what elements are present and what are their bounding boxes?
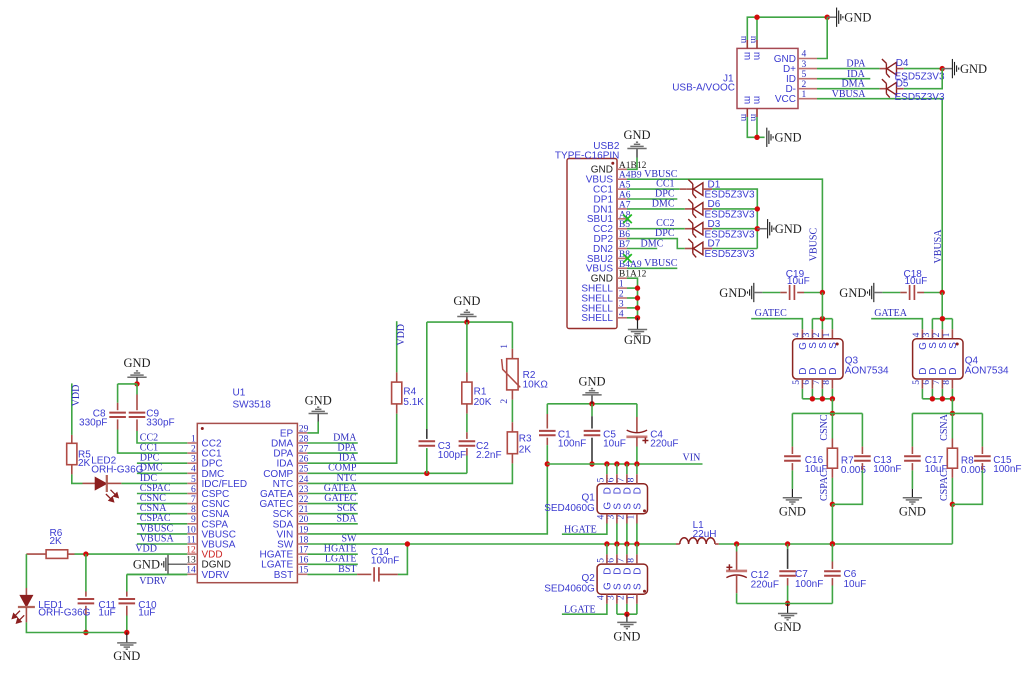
resistor R6 2K (46, 550, 68, 559)
svg-text:8: 8 (626, 477, 636, 482)
junction (424, 471, 429, 476)
wire (636, 404, 638, 417)
svg-text:100nF: 100nF (558, 439, 586, 450)
U1 pin 8 CSNA (187, 513, 197, 515)
junction (830, 396, 835, 401)
svg-text:m: m (741, 96, 752, 104)
svg-text:GND: GND (133, 558, 160, 572)
capacitor C19 plates (789, 285, 791, 300)
svg-text:3: 3 (802, 332, 812, 337)
junction (604, 541, 609, 546)
J1 pin 1 VCC (798, 98, 817, 100)
svg-text:220uF: 220uF (751, 580, 779, 591)
wire C13 to CSPAC node (832, 470, 862, 504)
resistor R3 2K (507, 432, 517, 454)
ground bars (768, 219, 774, 238)
ground GND above USB2 (636, 149, 638, 158)
wire net SW rail (307, 543, 676, 545)
J1 mechanical pin m bottom-left (746, 109, 748, 118)
capacitor C1 100nF (539, 430, 556, 432)
svg-text:5: 5 (802, 70, 807, 80)
junction (785, 601, 790, 606)
ground GND below USB2 (637, 318, 639, 330)
junction (635, 285, 640, 290)
wire C14 to SW (398, 544, 408, 574)
svg-text:16: 16 (299, 556, 309, 566)
svg-text:GND: GND (779, 505, 806, 519)
wire net DMC (137, 472, 187, 474)
capacitor C17 10uF (904, 455, 921, 457)
svg-text:D5: D5 (896, 78, 909, 89)
node CSNC rail (792, 412, 862, 414)
USB2 pin 3 SHELL (617, 307, 627, 309)
wire (736, 544, 738, 552)
diode D6 ESD5Z3V3 (688, 199, 703, 218)
diode D7 ESD5Z3V3 (688, 239, 703, 258)
svg-text:VIN: VIN (683, 453, 701, 464)
svg-text:D: D (948, 368, 959, 375)
svg-text:3: 3 (606, 515, 616, 520)
wire (511, 322, 513, 349)
svg-text:GND: GND (113, 649, 140, 663)
resistor R2 10K NTC (507, 359, 518, 390)
svg-text:100nF: 100nF (795, 579, 823, 590)
svg-text:GND: GND (839, 286, 866, 300)
svg-text:10uF: 10uF (905, 276, 928, 287)
ground GND at U1 DGND pin 13 (168, 563, 187, 565)
wire J1 GND pin to top rail (817, 17, 827, 58)
junction (754, 15, 759, 20)
svg-text:GND: GND (123, 356, 150, 370)
junction (755, 206, 760, 211)
svg-text:AON7534: AON7534 (965, 366, 1009, 377)
diode D3 ESD5Z3V3 (688, 219, 703, 238)
svg-text:1uF: 1uF (138, 608, 155, 619)
svg-text:m: m (751, 96, 762, 104)
svg-text:VCC: VCC (775, 94, 796, 105)
junction (940, 396, 945, 401)
junction (830, 541, 835, 546)
no-connect X on pin A8 (623, 215, 632, 224)
wire net CSPAC down (831, 504, 833, 544)
wire Q4 source tie (932, 318, 952, 320)
wire net VDRV (127, 573, 188, 575)
wire shell pin (627, 307, 638, 309)
svg-text:1: 1 (626, 515, 636, 520)
wire net CSNC (137, 503, 187, 505)
wire VBUSA to Q4 (941, 293, 943, 319)
svg-text:28: 28 (299, 434, 309, 444)
J1 mechanical pin m bottom-right (756, 109, 758, 118)
junction (635, 295, 640, 300)
wire Q3 source tie (812, 318, 832, 320)
svg-text:GND: GND (960, 62, 987, 76)
power flag VDD at R4 (396, 321, 398, 372)
svg-text:VDRV: VDRV (202, 570, 230, 581)
svg-text:CSNC: CSNC (819, 414, 830, 440)
svg-text:SED4060G: SED4060G (544, 503, 595, 514)
svg-text:DMC: DMC (641, 238, 664, 249)
wire net VBUSC from USB2 to Q3 (627, 179, 822, 292)
svg-text:2: 2 (932, 332, 942, 337)
junction (810, 396, 815, 401)
ground bars (117, 643, 136, 649)
junction (624, 461, 629, 466)
svg-text:m: m (741, 52, 752, 60)
wire net LGATE at Q2 (562, 604, 607, 614)
svg-text:ESD5Z3V3: ESD5Z3V3 (895, 92, 945, 103)
ground GND below Q2 (626, 614, 628, 622)
svg-text:20: 20 (299, 515, 309, 525)
svg-text:D: D (632, 487, 643, 494)
wire net DMA (817, 88, 880, 90)
wire (951, 478, 953, 504)
svg-text:14: 14 (186, 566, 196, 576)
wire net DMC (A7) (627, 208, 685, 210)
USB2 pin B8 SBU2 (617, 257, 627, 259)
svg-text:18: 18 (299, 535, 309, 545)
wire net CSPAC (137, 493, 187, 495)
svg-text:GND: GND (774, 620, 801, 634)
wire net HGATE at U1 (307, 553, 357, 555)
wire (787, 586, 789, 604)
svg-text:VDD: VDD (71, 385, 82, 407)
svg-text:15: 15 (299, 566, 309, 576)
wire (791, 413, 793, 446)
svg-text:GND: GND (775, 131, 802, 145)
U1 pin 15 BST (297, 573, 307, 575)
svg-text:SHELL: SHELL (581, 313, 613, 324)
svg-text:5: 5 (596, 477, 606, 482)
svg-text:BST: BST (274, 570, 293, 581)
svg-text:1: 1 (626, 595, 636, 600)
wire (546, 445, 548, 464)
junction (604, 461, 609, 466)
J1 pin 5 ID (798, 78, 817, 80)
svg-text:SW3518: SW3518 (233, 400, 272, 411)
wire net DPC (137, 462, 187, 464)
svg-text:GND: GND (719, 286, 746, 300)
wire (831, 544, 833, 562)
junction (830, 541, 835, 546)
wire net LGATE at U1 (307, 563, 357, 565)
junction (624, 541, 629, 546)
U1 pin 12 VDD (187, 553, 197, 555)
wire net VBUSC (137, 533, 187, 535)
wire net CC1 (627, 188, 680, 190)
junction (635, 315, 640, 320)
junction (830, 502, 835, 507)
svg-text:1: 1 (942, 332, 952, 337)
wire net VIN rail (547, 463, 702, 465)
op-amp U1 SW3518 (197, 423, 297, 582)
svg-text:m: m (751, 52, 762, 60)
wire net HGATE at Q1 (562, 524, 607, 535)
power flag VDD at R5 (71, 383, 73, 435)
wire (831, 413, 833, 438)
ground GND at D4 (942, 68, 952, 70)
U1 pin 29 EP (297, 432, 307, 434)
wire net CSNA (137, 513, 187, 515)
capacitor C6 10uF (824, 570, 841, 572)
wire net DMC (B7) (627, 248, 657, 250)
svg-text:6: 6 (191, 485, 196, 495)
svg-text:13: 13 (186, 556, 196, 566)
wire (511, 400, 513, 423)
svg-text:GATEA: GATEA (874, 308, 908, 319)
ground GND below C17 (911, 489, 913, 498)
svg-text:VBUSC: VBUSC (809, 228, 820, 262)
transistor Q3 AON7534 (793, 339, 843, 379)
junction (785, 541, 790, 546)
ground GND below C16 (791, 489, 793, 498)
svg-text:VDD: VDD (396, 324, 407, 346)
junction (734, 541, 739, 546)
ground bars (457, 310, 476, 316)
svg-text:4: 4 (596, 595, 606, 600)
svg-text:6: 6 (606, 558, 616, 563)
USB2 pin A5 CC1 (617, 188, 627, 190)
ground bars (778, 614, 797, 620)
svg-text:2: 2 (500, 399, 510, 404)
svg-text:23: 23 (299, 485, 309, 495)
svg-text:GND: GND (578, 375, 605, 389)
wire (85, 554, 87, 591)
resistor R7 0.005 (827, 448, 837, 468)
U1 pin 20 SDA (297, 523, 307, 525)
svg-text:5: 5 (191, 475, 196, 485)
svg-text:2: 2 (812, 332, 822, 337)
U1 pin 6 CSPC (187, 493, 197, 495)
inductor L1 22uH (676, 543, 680, 545)
svg-text:1: 1 (191, 434, 196, 444)
capacitor C11 1uF (78, 598, 95, 600)
U1 pin 28 DMA (297, 442, 307, 444)
svg-text:7: 7 (616, 558, 626, 563)
wire SW rail right of L1 (719, 543, 953, 545)
svg-text:2K: 2K (78, 458, 91, 469)
wire (466, 322, 468, 372)
diode D5 ESD5Z3V3 (882, 79, 897, 98)
capacitor C10 1uF (119, 598, 136, 600)
svg-text:10KΩ: 10KΩ (523, 380, 549, 391)
svg-text:6: 6 (922, 380, 932, 385)
wire net COMP (307, 472, 467, 474)
wire BST (307, 573, 357, 575)
transistor Q1 SED4060G (597, 484, 647, 514)
USB2 pin A8 SBU1 (617, 218, 627, 220)
svg-text:5: 5 (912, 380, 922, 385)
capacitor C5 10uF (584, 430, 601, 432)
junction (950, 502, 955, 507)
junction (820, 316, 825, 321)
svg-text:Q1: Q1 (581, 492, 595, 503)
capacitor C13 100nF (854, 455, 871, 457)
U1 pin 25 COMP (297, 472, 307, 474)
transistor Q4 AON7534 (913, 339, 963, 379)
junction (634, 461, 639, 466)
svg-text:7: 7 (616, 477, 626, 482)
USB2 pin A1B12 GND (617, 168, 627, 170)
diode D4 ESD5Z3V3 (882, 59, 897, 78)
U1 pin 13 DGND (187, 563, 197, 565)
U1 pin 16 LGATE (297, 563, 307, 565)
svg-text:7: 7 (932, 380, 942, 385)
U1 pin 10 VBUSC (187, 533, 197, 535)
svg-text:VBUSC: VBUSC (644, 258, 678, 269)
svg-text:3: 3 (922, 332, 932, 337)
svg-text:3: 3 (802, 60, 807, 70)
ground GND top of J1 (827, 16, 836, 18)
svg-text:6: 6 (802, 380, 812, 385)
wire bottom rail to GND (26, 622, 126, 632)
svg-text:2: 2 (191, 445, 196, 455)
svg-text:22: 22 (299, 495, 309, 505)
svg-text:4: 4 (912, 332, 922, 337)
svg-text:8: 8 (191, 505, 196, 515)
transistor Q2 SED4060G (597, 564, 647, 594)
J1 pin 4 GND (798, 58, 817, 60)
junction (825, 15, 830, 20)
ground GND at diode bus (757, 228, 767, 230)
J1 mechanical pin m top-left (746, 40, 748, 48)
capacitor C2 2.2nF (459, 440, 476, 442)
wire (546, 404, 548, 414)
wire J1 shell top-right stub riser (756, 17, 758, 40)
svg-text:CSPAC: CSPAC (939, 470, 950, 501)
U1 pin 14 VDRV (187, 573, 197, 575)
junction (820, 396, 825, 401)
LED LED2 ORH-G36G (95, 477, 106, 489)
svg-text:ORH-G36G: ORH-G36G (91, 465, 143, 476)
U1 pin 18 SW (297, 543, 307, 545)
svg-text:VDD: VDD (135, 544, 157, 555)
wire (307, 513, 357, 515)
svg-text:HGATE: HGATE (564, 524, 597, 535)
svg-text:2.2nF: 2.2nF (476, 450, 502, 461)
svg-text:4: 4 (619, 309, 624, 319)
junction (940, 66, 945, 71)
wire net CC2 (627, 228, 685, 230)
capacitor C7 100nF (779, 570, 796, 572)
wire (951, 413, 953, 438)
junction (940, 316, 945, 321)
ground GND bottom left (126, 633, 128, 643)
wire net DPC (A6) (627, 198, 677, 200)
wire shell pin (627, 317, 638, 319)
node CSNA rail (912, 412, 982, 414)
svg-text:100nF: 100nF (873, 464, 901, 475)
capacitor C16 10uF (784, 455, 801, 457)
net GATEA (871, 319, 922, 330)
svg-text:100nF: 100nF (993, 464, 1021, 475)
svg-text:LGATE: LGATE (564, 604, 596, 615)
wire (882, 292, 900, 294)
ground bars (952, 59, 958, 78)
svg-text:22uH: 22uH (693, 529, 717, 540)
USB2 pin 4 SHELL (617, 317, 627, 319)
svg-text:VBUSA: VBUSA (832, 89, 867, 100)
junction (464, 319, 469, 324)
resistor R8 0.005 (947, 448, 957, 468)
capacitor C12 220uF (726, 570, 747, 573)
svg-text:1: 1 (500, 344, 510, 349)
ground GND at C18 (868, 283, 874, 302)
U1 pin 27 DPA (297, 452, 307, 454)
wire net IDA to R4 (307, 414, 396, 464)
svg-text:5.1K: 5.1K (403, 397, 424, 408)
svg-text:10uF: 10uF (844, 579, 867, 590)
node GND rail above R1 (427, 321, 513, 323)
svg-text:Q2: Q2 (581, 573, 595, 584)
wire (636, 447, 638, 465)
ground GND at U1 EP (317, 414, 319, 422)
svg-text:12: 12 (186, 546, 196, 556)
wire (762, 292, 780, 294)
wire (791, 470, 793, 489)
svg-text:GND: GND (844, 11, 871, 25)
svg-text:TYPE-C16PIN: TYPE-C16PIN (555, 150, 619, 161)
junction (83, 630, 88, 635)
capacitor C3 100pF (419, 440, 436, 442)
svg-text:D: D (828, 368, 839, 375)
wire Q4 drain tie (922, 398, 952, 400)
wire LED2 to IDC pin (121, 482, 187, 484)
svg-text:10uF: 10uF (603, 439, 626, 450)
junction (754, 135, 759, 140)
svg-text:CSPAC: CSPAC (819, 470, 830, 501)
wire VDRV (127, 573, 188, 575)
wire net VBUSA (817, 99, 942, 293)
capacitor C8 330pF (109, 412, 126, 414)
wire (981, 413, 983, 446)
U1 pin 9 CSPA (187, 523, 197, 525)
ground bars (628, 330, 647, 336)
svg-text:GND: GND (775, 222, 802, 236)
svg-text:330pF: 330pF (79, 418, 107, 429)
USB2 pin B5 CC2 (617, 228, 627, 230)
LED LED1 ORH-G36G (20, 595, 32, 606)
svg-text:20K: 20K (474, 397, 492, 408)
wire (25, 554, 27, 588)
wire VIN pin to rail (307, 464, 547, 534)
svg-text:D: D (632, 568, 643, 575)
svg-text:9: 9 (191, 515, 196, 525)
svg-text:R3: R3 (519, 434, 532, 445)
ground bars (617, 622, 636, 628)
junction (755, 226, 760, 231)
junction (830, 411, 835, 416)
svg-text:26: 26 (299, 455, 309, 465)
U1 pin 11 VBUSA (187, 543, 197, 545)
node output gnd rail (737, 603, 833, 605)
wire net VBUSA (137, 543, 187, 545)
J1 pin 3 D+ (798, 68, 817, 70)
junction (940, 290, 945, 295)
svg-text:3: 3 (606, 595, 616, 600)
svg-text:2: 2 (619, 290, 624, 300)
ground bars (783, 498, 802, 504)
svg-text:4: 4 (792, 332, 802, 337)
svg-text:220uF: 220uF (650, 439, 678, 450)
svg-text:GND: GND (899, 505, 926, 519)
wire R6 to VDD pin (75, 553, 188, 555)
svg-text:S: S (632, 583, 643, 590)
resistor R1 20K (462, 382, 472, 404)
wire (72, 474, 83, 483)
ground GND above C5 (591, 395, 593, 404)
junction (634, 541, 639, 546)
